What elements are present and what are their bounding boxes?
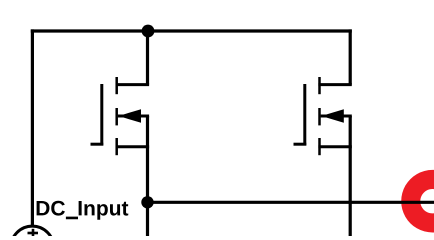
transistor Q2 (right NMOS) <box>294 77 352 155</box>
logo letter C (red watermark, clipped at right edge) <box>401 170 434 233</box>
junction node: top rail / Q1 drain <box>142 25 155 38</box>
wire: right drain drop <box>349 29 352 84</box>
wire: left rail <box>31 29 34 226</box>
wire: Q1 source/body down to DC bus <box>146 116 149 236</box>
net label DC_Input <box>37 201 129 220</box>
wire: top rail <box>31 29 352 32</box>
voltage source V1 (circle, clipped at bottom) <box>11 226 54 240</box>
wire: DC_Input bus <box>146 201 434 204</box>
polarity plus sign of V1 <box>28 229 39 237</box>
wire: Q2 source/body down across DC bus <box>349 116 352 236</box>
transistor Q1 (left NMOS) <box>91 77 150 155</box>
wire: Q1 drain drop <box>146 31 149 85</box>
junction node: DC bus / Q1 source <box>141 196 153 208</box>
